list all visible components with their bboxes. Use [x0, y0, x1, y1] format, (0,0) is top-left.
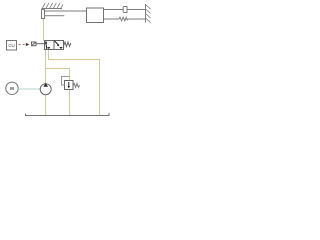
- cylinder anchor block: [42, 10, 45, 19]
- relief valve arrow: [68, 82, 70, 87]
- svg-text:CU: CU: [8, 43, 14, 48]
- valve right position: blocked P port: [60, 48, 62, 50]
- control signal dashed line: [19, 44, 26, 46]
- spring to wall: [104, 17, 146, 21]
- tank reservoir line: [26, 113, 110, 116]
- fixed wall top-left with hatching: [42, 3, 63, 9]
- wire: branch to relief valve: [46, 69, 70, 82]
- valve right position: A->T arrow: [54, 41, 58, 45]
- valve U1 body (3/2 directional valve): [45, 41, 64, 50]
- signal arrowhead: [26, 43, 30, 46]
- valve left position: blocked T port: [48, 48, 50, 50]
- svg-text:M: M: [10, 86, 14, 91]
- control unit CU box: [7, 41, 17, 51]
- motor shaft line (green): [18, 88, 40, 90]
- damper (dashpot): [123, 7, 145, 13]
- relief valve pilot line: [62, 77, 70, 86]
- relief valve spring: [73, 84, 80, 88]
- wire: cylinder A-port line: [43, 19, 45, 41]
- piston rod to mass: [45, 10, 87, 12]
- solenoid coil: [32, 42, 45, 46]
- cylinder barrel line: [45, 15, 65, 17]
- damper rod: [104, 9, 124, 11]
- valve left position: P->A arrow: [45, 43, 48, 49]
- wire: T return line valve to tank: [49, 50, 100, 116]
- background: [0, 0, 160, 120]
- pump P1: [40, 84, 51, 95]
- fixed wall right with hatching: [146, 4, 151, 23]
- valve return spring: [64, 42, 71, 46]
- wire: pump suction from tank: [45, 95, 47, 116]
- wire: relief valve drain to tank: [69, 90, 71, 116]
- wire: P pressure line valve to pump: [45, 50, 47, 85]
- mass block: [87, 8, 104, 23]
- relief valve body: [65, 81, 74, 90]
- motor M: [6, 82, 18, 94]
